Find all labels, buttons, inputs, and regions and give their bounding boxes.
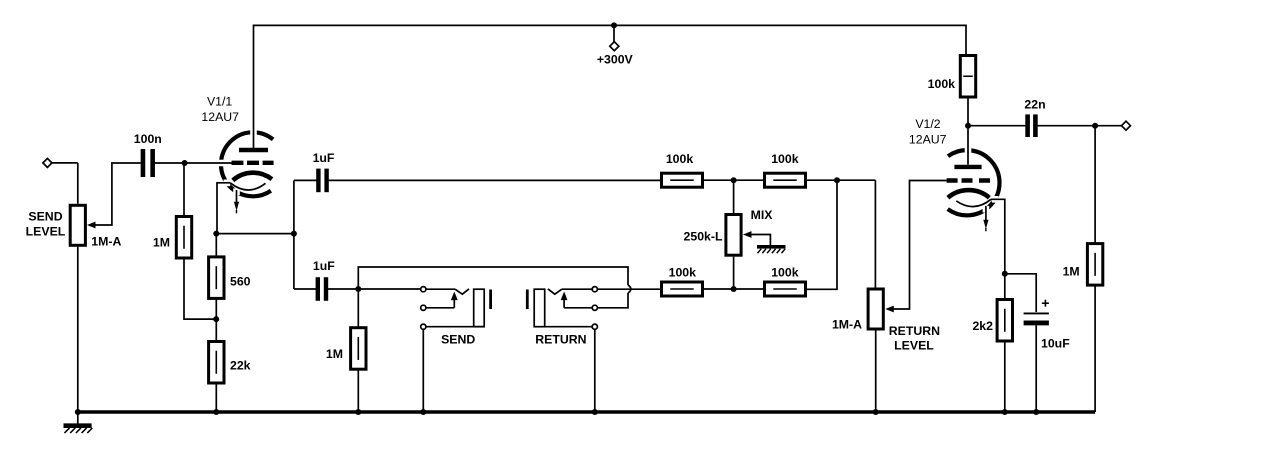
resistor 100k anode (960, 56, 975, 98)
V1/2 cathode lead (991, 199, 1005, 299)
wire V1/1 anode to rail (253, 25, 255, 149)
wire ground bus (78, 410, 1095, 413)
svg-text:1M: 1M (153, 236, 170, 250)
V1/2 cathode arrow (983, 206, 988, 231)
wire upper mid (703, 179, 765, 181)
wire branch vertical (293, 180, 295, 289)
svg-text:250k-L: 250k-L (684, 230, 723, 244)
svg-text:1M: 1M (326, 347, 343, 361)
potentiometer RETURN LEVEL 1M-A (868, 289, 883, 329)
svg-text:100k: 100k (669, 265, 697, 279)
ground mix wiper (757, 247, 786, 253)
V1/1 cathode arc (233, 173, 272, 181)
envelope gap V1/1 grid lead (218, 160, 225, 167)
wire mix wiper to ground (751, 235, 770, 246)
resistor 1M output load (1087, 244, 1102, 286)
wire mix pot bottom (733, 257, 735, 289)
resistor 100k lower right (765, 282, 806, 296)
resistor 1M send leak (351, 328, 366, 370)
wire junction to 1M (183, 163, 185, 217)
wire lower mid (703, 288, 765, 290)
svg-text:2k2: 2k2 (972, 319, 993, 333)
jack SEND tip spring (455, 289, 469, 294)
svg-text:+300V: +300V (597, 53, 634, 67)
resistor 100k lower left (662, 282, 703, 296)
wire 100k to anode node (967, 97, 969, 165)
wire output node to 1M load (1094, 126, 1096, 244)
resistor 100k upper right (765, 173, 806, 187)
jack SEND shunt contact arrow (451, 292, 458, 308)
svg-text:1M-A: 1M-A (832, 318, 862, 332)
wire RETURN sleeve to ground bus (594, 330, 596, 412)
wire cathode to 10uF (1005, 274, 1036, 312)
svg-text:1M-A: 1M-A (91, 234, 121, 248)
wire upper right to return level (806, 179, 876, 181)
node mix upper (731, 177, 737, 183)
node ground SEND jack (420, 409, 426, 415)
node ground 10uF (1033, 409, 1039, 415)
wire pot bottom to ground bus (875, 331, 877, 413)
node ground RETURN jack (592, 409, 598, 415)
wire 22k to ground bus (215, 383, 217, 412)
V1/1 cathode lead (217, 183, 230, 234)
capacitor 22n (1028, 114, 1036, 137)
wire mix pot top (733, 180, 735, 214)
wire 10uF to ground bus (1035, 325, 1037, 412)
wire 1M to bias tap (184, 258, 216, 319)
V1/2 heater curve (956, 199, 991, 206)
svg-text:100k: 100k (771, 265, 799, 279)
wiper arrow RETURN LEVEL (885, 306, 894, 313)
wire RETURN shunt (564, 307, 592, 309)
wire 1M load to ground bus (1094, 285, 1096, 412)
wire 100n to V1/1 grid (155, 162, 232, 164)
jack RETURN body (534, 289, 545, 327)
label 10uF plus (1042, 300, 1049, 307)
jack RETURN sleeve terminal (592, 324, 597, 329)
wire hop over return tip wire (628, 285, 631, 293)
resistor 2k2 (997, 300, 1012, 342)
envelope gap V1/1 cathode arrow (233, 188, 240, 195)
wire to 560 (215, 234, 217, 257)
V1/1 heater curve (230, 183, 265, 190)
node cathode/560 (213, 231, 219, 237)
svg-text:1uF: 1uF (313, 151, 335, 165)
svg-text:22k: 22k (230, 359, 251, 373)
wire SEND tip (426, 288, 455, 290)
wire SEND sleeve (426, 326, 484, 328)
capacitor 1uF upper (318, 169, 326, 193)
wire input to pot top (52, 162, 78, 164)
svg-text:100k: 100k (928, 77, 956, 91)
capacitor 1uF lower (318, 277, 326, 301)
wire send node over jacks to return shunt (358, 267, 628, 289)
node ground send level pot (75, 409, 81, 415)
wire wiper to grid node (95, 163, 141, 225)
jack SEND shunt terminal (421, 305, 426, 310)
envelope gap V1/2 anode lead (965, 147, 972, 154)
svg-text:LEVEL: LEVEL (894, 339, 934, 353)
terminal output (1122, 121, 1131, 130)
svg-text:100k: 100k (666, 152, 694, 166)
svg-text:22n: 22n (1024, 98, 1045, 112)
node cathode/coupling branch (291, 231, 297, 237)
capacitor 100n (143, 149, 153, 177)
node +300V junction (611, 22, 617, 28)
wire to RETURN LEVEL pot (874, 180, 876, 289)
triode V1/2 envelope (948, 150, 1000, 215)
wire SEND shunt (426, 307, 454, 309)
label SEND LEVEL (26, 210, 66, 239)
wire branch to upper 1uF (294, 179, 317, 181)
terminal +300V (610, 42, 619, 51)
node bias tap (213, 316, 219, 322)
node send node (355, 286, 361, 292)
svg-text:V1/2: V1/2 (915, 117, 940, 131)
wire +300V supply rail (254, 24, 967, 26)
potentiometer MIX 250k-L (726, 215, 741, 256)
V1/2 grid dashes (947, 178, 990, 182)
V1/2 anode plate bar (954, 165, 981, 169)
node ground 1M leak (355, 409, 361, 415)
ground symbol main (64, 412, 93, 433)
svg-text:SEND: SEND (28, 210, 62, 224)
jack RETURN shunt contact arrow (561, 292, 568, 308)
wire down to SEND LEVEL pot (77, 163, 79, 204)
wire pot bottom to ground bus (77, 247, 79, 412)
node grid/1M junction (182, 160, 188, 166)
capacitor 10uF electrolytic (1024, 313, 1049, 323)
svg-text:SEND: SEND (441, 333, 475, 347)
wire lower 1uF to send node (328, 288, 421, 290)
svg-text:MIX: MIX (751, 208, 774, 222)
jack SEND tip terminal (421, 287, 426, 292)
jack SEND body (474, 289, 485, 327)
wire send node to 1M leak (357, 289, 359, 328)
jack RETURN tip terminal (592, 287, 597, 292)
wire hop down to return shunt terminal (598, 293, 628, 308)
svg-text:1M: 1M (1063, 265, 1080, 279)
jack RETURN tip spring (548, 289, 562, 294)
node ground 22k (213, 409, 219, 415)
wire +300V terminal stub (613, 25, 615, 41)
wire RETURN tip (562, 288, 592, 290)
jack SEND sleeve terminal (421, 324, 426, 329)
svg-text:RETURN: RETURN (535, 333, 586, 347)
envelope gap V1/2 cathode lead (992, 196, 999, 203)
terminal input (43, 158, 52, 167)
resistor 22k (209, 342, 224, 384)
node mix lower (731, 286, 737, 292)
triode V1/1 envelope (221, 132, 273, 196)
resistor 560 (209, 257, 224, 299)
node anode/output (965, 123, 971, 129)
wire wiper to V1/2 grid (893, 181, 946, 310)
wire 2k2 to ground bus (1004, 341, 1006, 412)
svg-text:10uF: 10uF (1041, 337, 1070, 351)
wire rail to 100k anode resistor (965, 25, 967, 55)
node ground return level pot (873, 409, 879, 415)
svg-text:12AU7: 12AU7 (201, 110, 239, 124)
wiper arrow MIX (743, 231, 752, 238)
svg-text:100k: 100k (771, 152, 799, 166)
potentiometer SEND LEVEL 1M-A (70, 205, 85, 245)
resistor 1M grid (176, 217, 191, 259)
svg-text:560: 560 (230, 275, 251, 289)
jack RETURN tip bar (526, 290, 529, 310)
node ground 2k2 (1002, 409, 1008, 415)
node output junction (1092, 123, 1098, 129)
wiper arrow SEND LEVEL (87, 222, 96, 229)
V1/1 cathode arrow (234, 190, 239, 213)
V1/1 anode plate bar (239, 148, 268, 152)
svg-text:1uF: 1uF (313, 259, 335, 273)
svg-text:LEVEL: LEVEL (26, 225, 66, 239)
jack SEND tip bar (489, 290, 492, 310)
wire anode node to 22n (968, 125, 1026, 127)
label RETURN LEVEL (889, 324, 940, 352)
wire upper 1uF to mix network (328, 179, 661, 181)
envelope gap V1/1 anode lead (250, 129, 257, 136)
node mix out upper (834, 177, 840, 183)
svg-text:12AU7: 12AU7 (909, 133, 947, 147)
wire RETURN sleeve (545, 326, 592, 328)
wire RETURN tip to mix lower row (598, 288, 662, 290)
wire cathode row (217, 233, 294, 235)
node cathode/2k2 (1002, 271, 1008, 277)
wire lower right to join (806, 180, 838, 289)
wire SEND sleeve to ground bus (422, 330, 424, 412)
resistor 100k upper left (662, 173, 703, 187)
svg-text:RETURN: RETURN (889, 324, 940, 338)
envelope gap V1/1 cathode lead (224, 180, 231, 187)
V1/1 grid dashes (232, 161, 274, 165)
V1/2 cathode arc (948, 190, 989, 198)
wire 560 to tap (215, 298, 217, 341)
svg-text:100n: 100n (134, 132, 162, 146)
jack RETURN shunt terminal (592, 305, 597, 310)
wire branch to lower 1uF (294, 288, 316, 290)
wire 22n to output (1038, 125, 1122, 127)
wire 1M leak to ground bus (357, 369, 359, 412)
envelope gap V1/2 cathode arrow (983, 206, 990, 213)
svg-text:V1/1: V1/1 (207, 95, 232, 109)
